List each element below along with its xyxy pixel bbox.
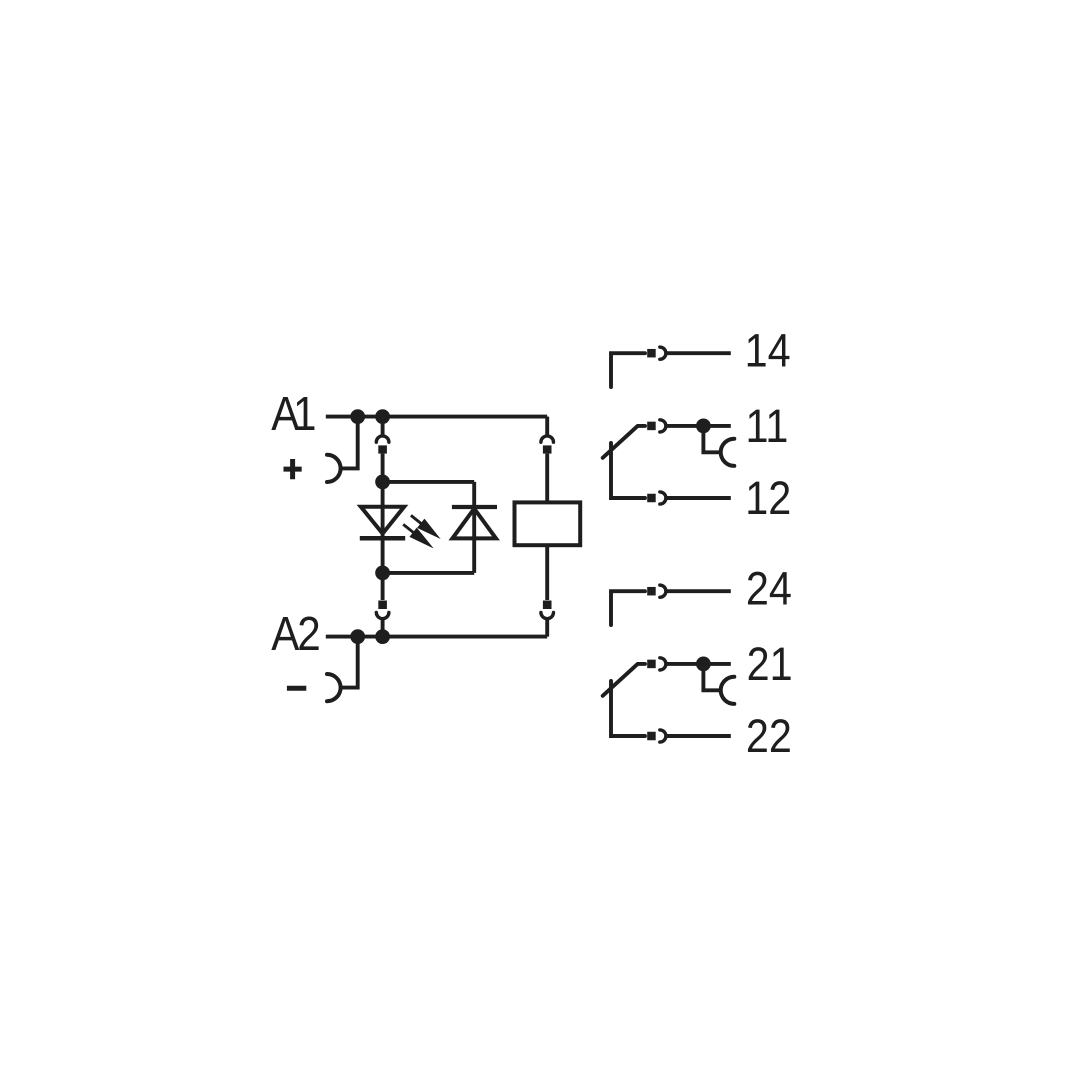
junction dot A1-a — [350, 409, 365, 424]
plug pin square (coil right top) — [543, 445, 552, 453]
wire inner loop right — [472, 482, 476, 573]
wire to A2 node — [381, 619, 385, 633]
plus sign — [284, 459, 302, 479]
contact group 1: NO contact 14 wire — [611, 353, 645, 387]
junction dot A2-a — [350, 629, 365, 644]
wire to LED node — [381, 454, 385, 478]
wire 14 — [666, 351, 731, 355]
svg-text:22: 22 — [746, 709, 792, 762]
wire 12 — [666, 496, 731, 500]
svg-text:24: 24 — [746, 561, 792, 614]
plug pin square (11) — [647, 422, 656, 431]
wire coil bottom to A2 — [545, 619, 549, 637]
svg-text:12: 12 — [745, 471, 791, 524]
wire LED bottom down — [381, 576, 385, 600]
clamp contact arc (11) — [721, 439, 735, 466]
plug socket arc (14) — [660, 347, 666, 359]
plug pin square (coil left top) — [378, 445, 387, 453]
plug socket arc (coil right bottom) — [541, 612, 554, 618]
wire inner loop bottom — [383, 571, 475, 575]
junction dot 11 — [696, 419, 711, 434]
node LED top — [375, 475, 390, 490]
wire 11 to clamp — [703, 430, 720, 452]
contact group 2: movable contact lever (21) — [603, 664, 645, 696]
wire A1 horizontal — [326, 415, 547, 419]
clamp contact arc (21) — [721, 677, 735, 704]
minus sign — [287, 686, 306, 691]
plug pin square (coil right bottom) — [543, 601, 552, 610]
plug socket arc (coil left top) — [376, 436, 389, 442]
plug socket arc (11) — [660, 420, 666, 432]
wire A1 to plus clamp — [341, 420, 358, 468]
wire A2 to minus clamp — [341, 640, 358, 688]
wire to coil — [545, 454, 549, 503]
wire A1-b down — [381, 420, 385, 436]
protection diode D2 cathode bar — [452, 505, 497, 509]
plug socket arc (24) — [660, 585, 666, 597]
clamp contact arc (minus) — [327, 674, 341, 701]
plug pin square (22) — [647, 732, 656, 741]
contact group 2: NC contact wire (22) — [611, 681, 645, 736]
svg-text:A2: A2 — [271, 608, 319, 661]
plug socket arc (22) — [660, 730, 666, 742]
contact group 2: NO contact 24 wire — [611, 591, 645, 625]
svg-text:A1: A1 — [271, 388, 315, 441]
plug pin square (21) — [647, 660, 656, 669]
junction dot 21 — [696, 657, 711, 672]
wire coil branch down — [545, 417, 549, 437]
plug pin square (24) — [647, 587, 656, 596]
plug socket arc (21) — [660, 658, 666, 670]
wire inner loop top — [383, 480, 475, 484]
node LED bottom — [375, 566, 390, 581]
LED light arrow 1 — [407, 511, 444, 544]
junction dot A2-b — [375, 629, 390, 644]
contact group 1: NC contact wire (12) — [611, 443, 645, 498]
plug pin square (12) — [647, 494, 656, 503]
contact group 1: movable contact lever (11) — [603, 426, 645, 458]
junction dot A1-b — [375, 409, 390, 424]
LED D1 vertical wire — [381, 485, 385, 570]
wire coil bottom — [545, 545, 549, 600]
clamp contact arc (plus) — [327, 455, 341, 482]
wire 21 — [666, 662, 731, 666]
plug socket arc (12) — [660, 492, 666, 504]
relay coil K1 — [515, 502, 581, 545]
wire 11 — [666, 424, 731, 428]
wire 21 to clamp — [703, 668, 720, 690]
plug socket arc (coil left bottom) — [376, 612, 389, 618]
plug pin square (coil left bottom) — [378, 601, 387, 610]
wire 24 — [666, 589, 731, 593]
plug socket arc (coil right top) — [541, 436, 554, 442]
svg-text:14: 14 — [745, 323, 791, 376]
svg-text:21: 21 — [747, 637, 793, 690]
LED D1 triangle — [361, 507, 404, 534]
wire 22 — [666, 734, 731, 738]
LED light arrow 2 — [400, 520, 438, 553]
LED D1 cathode bar — [360, 536, 405, 541]
plug pin square (14) — [647, 349, 656, 358]
svg-text:11: 11 — [746, 399, 789, 452]
protection diode D2 triangle — [452, 509, 496, 539]
wire A2 horizontal — [326, 635, 547, 639]
